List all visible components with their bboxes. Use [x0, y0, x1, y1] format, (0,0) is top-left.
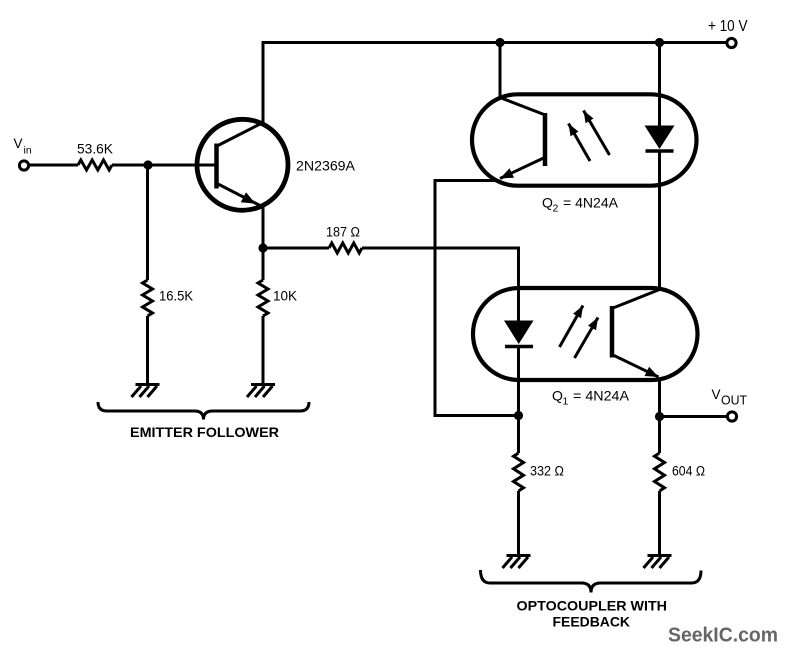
- Q1 phototransistor collector diagonal: [613, 290, 660, 309]
- svg-text:+ 10 V: + 10 V: [708, 18, 748, 35]
- wire: Q2 LED cathode down to Q1 transistor collector: [658, 151, 661, 290]
- ground under 604: [644, 556, 672, 569]
- wire: Q2 emitter out to feedback drop: [435, 181, 519, 416]
- svg-text:in: in: [24, 145, 32, 157]
- Q1 phototransistor emitter arrowhead: [645, 367, 659, 377]
- resistor 16.5K: [143, 280, 153, 316]
- svg-text:OUT: OUT: [721, 394, 747, 408]
- wire: Q1 emitter down to VOUT node: [658, 379, 661, 453]
- Q2 light arrow 1: [569, 124, 591, 162]
- Q1 phototransistor emitter line: [614, 356, 659, 378]
- brace: optocoupler with feedback: [481, 570, 702, 593]
- wire: emitter down to 10K: [262, 207, 265, 280]
- ground under 16.5K: [132, 385, 160, 398]
- svg-text:10K: 10K: [273, 289, 297, 304]
- Q2 phototransistor emitter line: [500, 158, 544, 179]
- ground under 10K: [247, 385, 275, 398]
- Q1 light arrow 2: [575, 318, 599, 359]
- diode LED of Q1 (triangle): [504, 321, 534, 345]
- wire: emitter node to R 187: [263, 247, 329, 250]
- terminal +10V: [727, 38, 736, 47]
- transistor Q 2N2369A: circle: [197, 119, 288, 210]
- terminal VOUT: [727, 412, 736, 421]
- ground under 332: [503, 556, 531, 569]
- svg-text:2: 2: [553, 203, 559, 215]
- optocoupler Q1 package outline: [473, 288, 698, 380]
- svg-text:Q: Q: [542, 195, 553, 211]
- wire: input node down to 16.5K: [146, 165, 149, 280]
- svg-text:OPTOCOUPLER WITH: OPTOCOUPLER WITH: [517, 598, 668, 614]
- svg-text:53.6K: 53.6K: [77, 142, 113, 157]
- diode LED of Q1 cathode bar: [505, 345, 533, 349]
- svg-text:EMITTER FOLLOWER: EMITTER FOLLOWER: [130, 424, 279, 440]
- wire: top rail down to Q2 LED anode: [658, 43, 661, 127]
- wire: R 53.6K to transistor base: [112, 164, 215, 167]
- resistor 332 ohm: [514, 453, 524, 491]
- transistor 2N2369A base bar: [214, 144, 219, 189]
- Q1 phototransistor base bar: [610, 306, 615, 358]
- svg-text:1: 1: [563, 396, 569, 408]
- Q1 light arrow 1: [560, 306, 584, 348]
- wire: 604 to ground: [658, 491, 661, 556]
- transistor 2N2369A collector line: [217, 123, 263, 147]
- node: junction dot top rail at Q2 phototransistor: [495, 38, 504, 47]
- svg-text:SeekIC.com: SeekIC.com: [668, 624, 778, 647]
- label Q2 = 4N24A: [542, 195, 619, 215]
- node: junction dot VOUT node: [655, 412, 664, 421]
- resistor 604 ohm: [655, 453, 665, 491]
- wire: Q1 LED cathode down to 332 node: [517, 347, 520, 454]
- brace: emitter follower: [98, 402, 309, 420]
- Q2 phototransistor collector diagonal: [500, 98, 544, 115]
- optocoupler Q2 package outline: [472, 94, 697, 185]
- diode LED of Q2 (triangle): [645, 126, 675, 150]
- wire: 332 to ground: [517, 491, 520, 556]
- terminal Vin: [19, 161, 28, 170]
- node: junction dot top rail at Q2 LED: [655, 38, 664, 47]
- svg-text:V: V: [14, 136, 23, 151]
- node: junction dot emitter node: [258, 243, 267, 252]
- wire: VOUT node to terminal: [660, 415, 728, 418]
- diode LED of Q2 cathode bar: [646, 149, 674, 153]
- transistor 2N2369A emitter arrowhead: [241, 192, 256, 204]
- Q2 phototransistor emitter arrowhead: [500, 168, 514, 178]
- node: junction dot Q1 LED cathode node: [514, 411, 523, 420]
- svg-text:= 4N24A: = 4N24A: [563, 195, 619, 211]
- label Q1 = 4N24A: [552, 388, 630, 408]
- resistor 187 ohm: [329, 243, 362, 253]
- Q2 phototransistor base bar: [543, 113, 548, 166]
- transistor 2N2369A emitter line: [217, 184, 263, 208]
- Q2 light arrow 2: [584, 111, 610, 156]
- wire: 10K to ground: [262, 316, 265, 385]
- wire: 16.5K to ground: [146, 316, 149, 385]
- svg-text:187 Ω: 187 Ω: [326, 225, 360, 240]
- node: junction dot input node: [143, 160, 152, 169]
- svg-text:Q: Q: [552, 388, 563, 404]
- svg-text:2N2369A: 2N2369A: [296, 158, 356, 174]
- resistor 10K: [258, 280, 268, 316]
- resistor 53.6K: [78, 160, 112, 170]
- svg-text:604 Ω: 604 Ω: [672, 464, 705, 479]
- wire: Vin to R 53.6K: [29, 164, 78, 167]
- svg-text:V: V: [712, 387, 721, 402]
- svg-text:FEEDBACK: FEEDBACK: [553, 614, 631, 630]
- wire: top rail down into Q2 phototransistor collector: [499, 43, 502, 98]
- svg-text:332 Ω: 332 Ω: [530, 464, 564, 479]
- svg-text:= 4N24A: = 4N24A: [573, 388, 630, 404]
- svg-text:16.5K: 16.5K: [159, 289, 193, 304]
- wire: top supply rail: [263, 43, 727, 123]
- wire: R 187 to Q1 LED corner: [362, 248, 519, 321]
